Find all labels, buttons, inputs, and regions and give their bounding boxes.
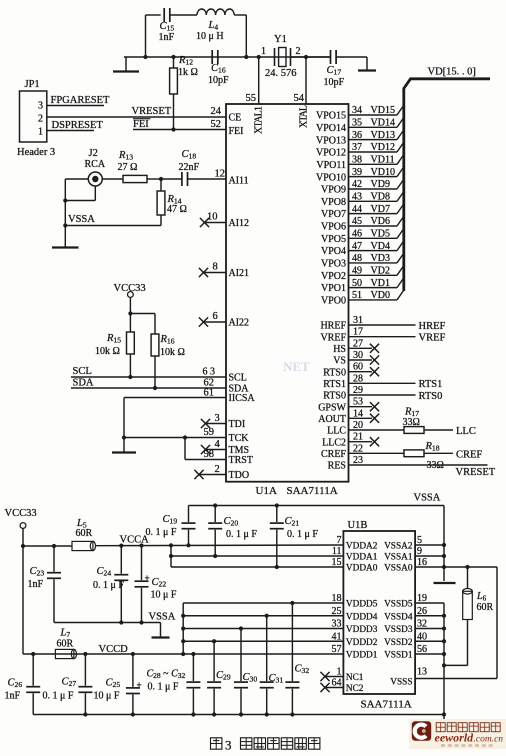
wire VSSA to R14 bottom — [65, 225, 161, 227]
svg-text:60R: 60R — [76, 528, 93, 539]
label pin 6 — [213, 311, 218, 322]
wire U1A pin 14 AOUT — [349, 414, 380, 423]
node junction C27 bottom — [83, 712, 87, 716]
ground (J2 VSSA) — [52, 246, 79, 248]
label C18 value — [179, 149, 200, 173]
svg-text:44: 44 — [352, 204, 362, 215]
svg-text:VPO11: VPO11 — [316, 160, 346, 171]
wire U1A pin 28 RTS1 — [349, 382, 416, 384]
node junction VSSA wire — [63, 223, 67, 227]
node junction shell — [63, 198, 67, 202]
svg-text:RTS0: RTS0 — [323, 391, 346, 402]
resistor R17 — [404, 427, 424, 434]
wire jack to R13 — [102, 178, 123, 180]
node junction VDDD4 tie — [181, 614, 185, 618]
wire IICSA down — [123, 398, 125, 438]
label pin 45 / net VD6 — [352, 216, 390, 227]
svg-text:NC1: NC1 — [346, 673, 364, 683]
capacitor C23 — [47, 546, 61, 623]
label U1A VPO5 — [321, 234, 346, 245]
wire VDDD5 to U1B pin18 — [183, 602, 343, 604]
wire U1A pin6 AI22 stub — [203, 321, 227, 323]
label JP1 pin 2 — [38, 114, 43, 125]
wire right-edge vertical (VSSA0-VSSS) — [496, 567, 498, 679]
wire C18 to U1A pin12 — [188, 178, 226, 180]
label U1A VPO14 — [316, 123, 346, 134]
svg-text:HREF: HREF — [419, 321, 446, 332]
svg-text:VD7: VD7 — [371, 204, 390, 215]
svg-text:C30: C30 — [243, 672, 258, 684]
svg-text:SCL: SCL — [229, 373, 247, 384]
svg-text:SDA: SDA — [73, 378, 94, 389]
svg-text:VS: VS — [333, 356, 346, 367]
svg-text:20: 20 — [353, 420, 363, 431]
svg-text:47: 47 — [352, 241, 362, 252]
label net VSSA (rail) — [414, 493, 441, 504]
connector JP1 — [20, 91, 47, 142]
svg-text:FPGARESET: FPGARESET — [51, 95, 111, 106]
node junction R13/R14/C18 — [159, 177, 163, 181]
wire U1A pin 51 VPO0 — [349, 290, 404, 300]
svg-text:VSSA0: VSSA0 — [384, 564, 413, 574]
svg-text:VD15: VD15 — [371, 105, 395, 116]
no-connect X NC2 — [320, 683, 329, 692]
no-connect X NC1 — [320, 672, 329, 681]
watermark (faint) — [283, 359, 310, 374]
wire jack left — [65, 178, 88, 180]
svg-text:VSSD4: VSSD4 — [384, 612, 413, 622]
svg-text:VPO2: VPO2 — [321, 271, 346, 282]
svg-text:24. 576: 24. 576 — [265, 68, 297, 79]
svg-text:14: 14 — [353, 408, 363, 419]
label pin 53 — [353, 397, 363, 408]
label pin 14 — [353, 408, 363, 419]
label pin 61 — [204, 388, 215, 399]
ground (left of oscillator) — [113, 57, 139, 72]
svg-text:NET: NET — [283, 359, 310, 374]
wire VSSA rail right vertical — [443, 506, 445, 582]
label pin 12 — [215, 169, 226, 180]
svg-text:VSSA: VSSA — [414, 493, 441, 504]
label C24 value — [93, 566, 124, 591]
capacitor C26 — [26, 654, 40, 715]
svg-text:SAA7111A: SAA7111A — [361, 699, 412, 711]
node junction VSSA0 — [442, 565, 446, 569]
wire U1A pin10 AI12 stub — [204, 222, 227, 224]
svg-text:27 Ω: 27 Ω — [118, 162, 138, 173]
wire U1A pin 30 VS — [349, 355, 380, 364]
node junction C31 bottom — [265, 712, 269, 716]
svg-text:6: 6 — [213, 311, 218, 322]
svg-text:VREF: VREF — [419, 333, 446, 344]
node junction VSSD — [442, 652, 446, 656]
node junction C21 top — [275, 503, 279, 507]
label JP1 pin 3 — [38, 101, 43, 112]
wire FEI net to U1A pin52 — [133, 129, 226, 131]
wire VCC33 left vertical — [22, 546, 24, 654]
wire VDDA0 to U1A pin15 — [171, 566, 343, 568]
no-connect X pin 10 — [200, 218, 209, 227]
label net VRESET (pin23) — [456, 467, 496, 478]
wire VDDD2 to U1B pin41 — [183, 640, 343, 642]
ground (JTAG/IICSA) — [112, 438, 136, 453]
svg-text:VD14: VD14 — [371, 118, 395, 129]
label net FEI (overline) — [133, 119, 151, 130]
capacitor C27 — [78, 654, 92, 715]
wire node to C18 — [161, 178, 181, 180]
svg-text:RCA: RCA — [85, 159, 106, 170]
wire U1A pin 44 VPO7 — [349, 204, 404, 214]
label U1A RTS1 — [323, 379, 346, 390]
connector J2 RCA jack — [88, 172, 102, 186]
svg-text:0. 1 μ F: 0. 1 μ F — [43, 691, 74, 702]
svg-text:39: 39 — [352, 167, 362, 178]
label U1A VS — [333, 356, 346, 367]
node junction C25 top — [131, 652, 135, 656]
capacitor C25 (electrolytic) — [126, 654, 142, 715]
wire top branch right — [234, 14, 246, 16]
label C25 value — [94, 678, 121, 702]
no-connect X pin 2 — [194, 470, 203, 479]
label pin 30 — [353, 350, 363, 361]
svg-text:58: 58 — [204, 449, 215, 460]
wire U1A pin 38 VPO11 — [349, 155, 404, 165]
svg-text:L7: L7 — [60, 628, 71, 640]
svg-text:22nF: 22nF — [179, 162, 200, 173]
svg-text:41: 41 — [332, 631, 342, 642]
svg-text:AI12: AI12 — [229, 218, 250, 229]
wire U1B pin16 VSSA0 — [415, 566, 497, 568]
label C17 value — [324, 65, 345, 88]
label pin 38 / net VD11 — [352, 155, 395, 166]
label U1A VREF — [320, 332, 346, 343]
label pin 58 — [204, 449, 215, 460]
label net VCCD — [99, 644, 129, 655]
svg-text:17: 17 — [353, 327, 363, 338]
wire U1A pin 27 HS — [349, 344, 380, 353]
svg-text:VPO3: VPO3 — [321, 259, 346, 270]
wire JP1 pin3 FPGARESET stub — [47, 105, 104, 107]
no-connect X pin 6 — [199, 317, 208, 326]
label pin 21 — [353, 432, 363, 443]
node junction R15 bottom — [128, 375, 132, 379]
svg-text:VD10: VD10 — [371, 167, 395, 178]
svg-text:C27: C27 — [62, 677, 77, 689]
svg-text:34: 34 — [352, 105, 362, 116]
svg-text:AOUT: AOUT — [318, 414, 346, 425]
label C20 value — [224, 516, 258, 540]
label C28~C32 value — [147, 669, 186, 693]
wire VCC33 down — [129, 297, 131, 313]
svg-text:RTS0: RTS0 — [419, 391, 443, 402]
svg-text:25: 25 — [332, 606, 342, 617]
label U1A part number SAA7111A — [287, 485, 338, 497]
wire U1A pin 36 VPO13 — [349, 130, 404, 140]
wire C17 to ground — [336, 56, 367, 58]
svg-text:R15: R15 — [106, 333, 121, 345]
label C26 value — [5, 678, 23, 702]
label pin 60 — [353, 362, 363, 373]
node junction C31 top — [265, 614, 269, 618]
wire U1A pin4 TMS stub — [205, 449, 227, 451]
label L7 value — [57, 628, 74, 650]
svg-text:VSSA: VSSA — [68, 214, 95, 225]
label pin 3 — [215, 413, 220, 424]
node junction C23 top — [52, 544, 56, 548]
node junction VDDD tie bottom — [181, 652, 185, 656]
svg-text:38: 38 — [352, 155, 362, 166]
wire U1A pin 43 VPO8 — [349, 192, 404, 202]
svg-text:VD[15. . 0]: VD[15. . 0] — [428, 67, 476, 78]
svg-text:VD8: VD8 — [371, 192, 390, 203]
svg-text:RTS0: RTS0 — [323, 367, 346, 378]
svg-text:VSSD1: VSSD1 — [384, 651, 413, 661]
svg-text:FEI: FEI — [229, 126, 244, 137]
svg-text:VPO5: VPO5 — [321, 234, 346, 245]
wire VSSA rail — [189, 505, 445, 507]
svg-text:VSSA1: VSSA1 — [384, 553, 413, 563]
node junction VSSD — [442, 626, 446, 630]
wire U1A pin8 AI21 stub — [203, 272, 227, 274]
labels U1B left pin numbers — [332, 535, 342, 689]
svg-text:VPO13: VPO13 — [316, 135, 346, 146]
label pin 24 — [211, 106, 222, 117]
svg-text:1: 1 — [261, 46, 266, 57]
svg-text:VD6: VD6 — [371, 216, 390, 227]
label net SCL — [73, 366, 92, 377]
label pin 22 — [353, 443, 363, 454]
svg-text:49: 49 — [352, 265, 362, 276]
wire R13 to node — [147, 178, 161, 180]
node junction C26 top — [31, 652, 35, 656]
node junction VDDA tie top — [169, 543, 173, 547]
svg-text:C19: C19 — [163, 514, 178, 526]
no-connect X pin 4 — [201, 445, 210, 454]
svg-text:52: 52 — [211, 119, 222, 130]
svg-text:37: 37 — [352, 142, 362, 153]
inductor L6 ferrite bead — [463, 567, 473, 620]
svg-text:XTAL1: XTAL1 — [254, 106, 265, 134]
svg-text:1k Ω: 1k Ω — [178, 67, 198, 78]
svg-text:48: 48 — [352, 253, 362, 264]
wire JP1 pin1 DSPRESET stub — [47, 130, 94, 132]
label pin 50 / net VD1 — [352, 278, 390, 289]
capacitor C30 — [234, 629, 248, 715]
wire loop left vertical — [145, 15, 147, 57]
svg-text:23: 23 — [353, 455, 363, 466]
wire VCCD (VDDD1) to U1B pin57 — [23, 653, 343, 655]
svg-text:SCL: SCL — [73, 366, 92, 377]
capacitor C16 — [212, 50, 218, 64]
label U1A GPSW — [318, 402, 346, 413]
label U1A AOUT — [318, 414, 346, 425]
svg-text:33Ω: 33Ω — [403, 417, 420, 428]
label pin 49 / net VD2 — [352, 265, 390, 276]
svg-text:11: 11 — [332, 546, 342, 557]
label Y1 — [274, 34, 287, 45]
svg-text:VDDA1: VDDA1 — [346, 553, 378, 563]
svg-text:Header 3: Header 3 — [17, 147, 55, 158]
label U1A VPO4 — [321, 246, 346, 257]
svg-text:47 Ω: 47 Ω — [167, 204, 187, 215]
svg-text:NC2: NC2 — [346, 684, 364, 694]
label U1A VPO7 — [321, 209, 346, 220]
svg-text:7: 7 — [337, 535, 342, 546]
wire U1B pin64 NC2 stub — [324, 687, 343, 689]
svg-text:1nF: 1nF — [159, 32, 175, 43]
label net RTS1 — [419, 379, 443, 390]
label C21 value — [285, 516, 319, 540]
label Y1 pin 1 — [261, 46, 266, 57]
svg-text:TDO: TDO — [229, 470, 250, 481]
svg-text:VD1: VD1 — [371, 278, 390, 289]
node junction C20 top — [213, 503, 217, 507]
resistor R12 — [170, 57, 178, 130]
label net SDA — [73, 378, 94, 389]
svg-text:1nF: 1nF — [28, 579, 44, 590]
svg-text:VPO0: VPO0 — [321, 296, 346, 307]
label C19 value — [146, 514, 178, 538]
label C31 value — [269, 673, 284, 685]
node junction C30 top — [239, 626, 243, 630]
svg-text:L4: L4 — [208, 20, 219, 32]
svg-text:0. 1 μ F: 0. 1 μ F — [287, 529, 318, 540]
resistor R14 — [157, 179, 165, 226]
capacitor C17 — [331, 50, 337, 64]
svg-text:3: 3 — [38, 101, 43, 112]
label J2 — [89, 148, 98, 159]
svg-text:Y1: Y1 — [274, 34, 287, 45]
node junction C29 top — [212, 639, 216, 643]
svg-text:27: 27 — [353, 338, 363, 349]
svg-text:JP1: JP1 — [25, 79, 40, 90]
wire VDDD tie vertical — [182, 603, 184, 654]
svg-text:VPO6: VPO6 — [321, 222, 346, 233]
label U1A VPO2 — [321, 271, 346, 282]
svg-text:C32: C32 — [295, 664, 310, 676]
svg-text:29: 29 — [353, 385, 363, 396]
node junction C32 bottom — [290, 712, 294, 716]
svg-text:VPO14: VPO14 — [316, 123, 346, 134]
wire U1A pin 42 VPO9 — [349, 179, 404, 189]
label pin 31 — [353, 315, 363, 326]
svg-text:10pF: 10pF — [208, 75, 229, 86]
label RCA — [85, 159, 106, 170]
label C30 value — [243, 672, 258, 684]
logo eeworld.com.cn — [409, 719, 506, 749]
label R15 value — [95, 333, 121, 357]
svg-text:VSSA2: VSSA2 — [384, 542, 413, 552]
svg-text:C16: C16 — [211, 63, 226, 75]
svg-text:2: 2 — [38, 114, 43, 125]
node junction C32 top — [290, 601, 294, 605]
label U1A CREF — [321, 449, 346, 460]
svg-text:2: 2 — [215, 464, 220, 475]
svg-text:10: 10 — [207, 212, 218, 223]
wire L6 bottom — [444, 620, 468, 666]
power pin VCC33 circle — [127, 292, 133, 298]
node junction R12 bottom on FEI wire — [171, 127, 175, 131]
wire U1A pin 60 RTS0 — [349, 367, 380, 376]
svg-text:RTS1: RTS1 — [419, 379, 443, 390]
svg-text:36: 36 — [352, 130, 362, 141]
node junction C30 bottom — [239, 712, 243, 716]
svg-text:L6: L6 — [476, 591, 487, 603]
label pin 55 — [246, 93, 257, 104]
wire branch to R16 — [130, 313, 155, 315]
capacitor C15 — [164, 8, 170, 22]
label pin 4 — [215, 439, 221, 450]
wire U1A pin 34 VPO15 — [349, 105, 404, 115]
wire U1A pin 48 VPO3 — [349, 253, 404, 263]
node junction rail/VSSD vertical — [442, 712, 446, 719]
label net VSSA (J2) — [68, 214, 95, 225]
svg-text:0. 1 μ F: 0. 1 μ F — [148, 682, 179, 693]
label pin 10 — [207, 212, 218, 223]
svg-text:VCCD: VCCD — [99, 644, 129, 655]
node junction C29 bottom — [212, 712, 216, 716]
svg-text:+: + — [137, 680, 142, 690]
label R13 value — [118, 150, 138, 173]
svg-text:LLC: LLC — [456, 426, 476, 437]
wire U1B pin9 VSSA1 — [415, 555, 444, 557]
svg-text:C22: C22 — [152, 577, 167, 589]
svg-text:C25: C25 — [106, 678, 121, 690]
svg-text:+: + — [145, 573, 150, 583]
wire VDDA tie vertical — [170, 545, 172, 567]
svg-text:VD4: VD4 — [371, 241, 390, 252]
label pin 8 — [213, 262, 218, 273]
labels U1B right pin names — [384, 542, 413, 688]
node junction VSSD — [442, 614, 446, 618]
label pin 44 / net VD7 — [352, 204, 390, 215]
wire main oscillator net — [124, 56, 330, 58]
capacitor C18 — [182, 172, 188, 186]
svg-text:C28 ~ C32: C28 ~ C32 — [147, 669, 186, 681]
svg-text:10k Ω: 10k Ω — [95, 346, 120, 357]
wire U1A pin61 IICSA — [124, 397, 226, 399]
node junction R16 bottom — [153, 386, 157, 390]
svg-text:45: 45 — [352, 216, 362, 227]
label C32 value — [295, 664, 310, 676]
label R12 value — [178, 55, 198, 78]
label net HREF — [419, 321, 446, 332]
wire SCL to U1A pin63 — [71, 376, 226, 378]
svg-text:R13: R13 — [118, 150, 133, 162]
label C29 value — [216, 670, 231, 682]
svg-text:43: 43 — [352, 192, 362, 203]
wire U1A pin 46 VPO5 — [349, 229, 404, 239]
svg-text:R12: R12 — [178, 55, 193, 67]
node junction L6 top — [465, 565, 469, 569]
label C15 value — [159, 21, 175, 43]
svg-text:C18: C18 — [182, 149, 197, 161]
wire U1B pin13 VSSS — [415, 678, 497, 680]
label pin 63 — [203, 367, 216, 378]
svg-text:1: 1 — [38, 127, 43, 138]
label R18 value — [425, 441, 444, 471]
svg-text:VSSD5: VSSD5 — [384, 600, 413, 610]
label pin 20 — [353, 420, 363, 431]
label Header 3 — [17, 147, 55, 158]
svg-text:VSSS: VSSS — [390, 678, 412, 688]
capacitor C19 — [182, 506, 196, 546]
wire crystal to C17 — [291, 56, 331, 58]
svg-text:VDDD3: VDDD3 — [346, 625, 378, 635]
node junction C21 bottom — [275, 565, 279, 569]
wire analog VSSA rail (left) — [54, 622, 161, 624]
label U1A refdes — [256, 485, 277, 497]
